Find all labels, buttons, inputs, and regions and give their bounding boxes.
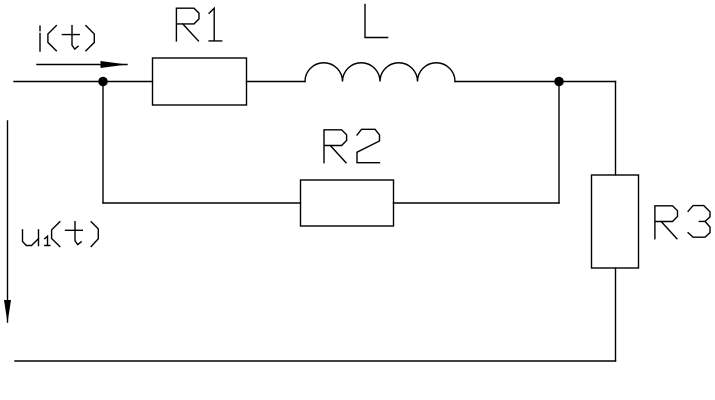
wire L to right corner <box>455 81 616 83</box>
wire left branch vertical <box>102 82 104 204</box>
label R3 <box>655 206 710 239</box>
wire R3 to bottom <box>615 268 617 361</box>
label R1 <box>176 8 221 41</box>
resistor R2 <box>301 180 394 226</box>
resistor R1 <box>153 58 247 105</box>
wire right branch vertical <box>558 82 560 204</box>
node B (junction dot right) <box>554 77 564 87</box>
wire middle left segment <box>103 202 301 204</box>
wire top-left segment <box>14 81 153 83</box>
wire R1 to L <box>247 81 306 83</box>
voltage arrow u1(t) <box>4 121 11 323</box>
current arrow i(t) <box>37 61 127 68</box>
label R2 <box>324 129 380 162</box>
wire right vertical down to R3 <box>615 82 617 176</box>
label i(t) <box>40 26 94 51</box>
resistor R3 <box>592 175 639 268</box>
label L <box>365 5 388 38</box>
label u1(t) <box>23 222 99 247</box>
node A (junction dot left) <box>98 77 108 87</box>
wire bottom <box>15 360 616 362</box>
wire middle right segment <box>394 202 560 204</box>
inductor L <box>305 63 455 82</box>
